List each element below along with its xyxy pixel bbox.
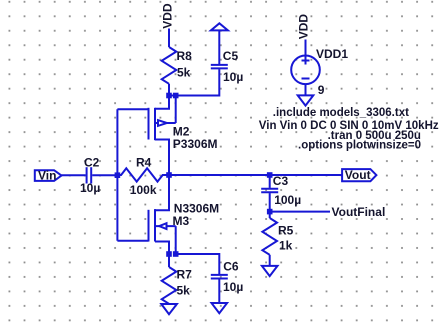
- svg-text:VDD1: VDD1: [316, 47, 348, 61]
- wire C6 to ground: [218, 279, 220, 303]
- wire junction to R7: [168, 254, 170, 267]
- svg-text:VoutFinal: VoutFinal: [332, 205, 386, 219]
- svg-text:R5: R5: [278, 223, 294, 237]
- resistor R4: [117, 168, 169, 181]
- wire bottom junction to C6: [176, 254, 220, 274]
- wire VDD to R8: [168, 29, 170, 48]
- ground below VDD1: [298, 95, 314, 105]
- node bottom junction A: [166, 251, 172, 257]
- svg-text:10µ: 10µ: [223, 70, 243, 84]
- wire C2 to gate node: [92, 174, 117, 176]
- svg-text:C3: C3: [273, 174, 289, 188]
- capacitor C5: [211, 30, 228, 68]
- PMOS M2 gate wire: [117, 108, 148, 110]
- resistor R5: [262, 218, 277, 255]
- svg-text:R8: R8: [177, 49, 193, 63]
- resistor R8: [162, 47, 177, 84]
- voltage source VDD1: [291, 56, 320, 85]
- spice directive .tran: [328, 130, 421, 142]
- svg-text:9: 9: [318, 83, 325, 97]
- wire top junction to C5 column: [169, 69, 219, 95]
- port flag Vout: [342, 169, 376, 181]
- spice directive Vin source: [259, 120, 439, 132]
- node bottom junction B: [173, 251, 179, 257]
- svg-text:10µ: 10µ: [223, 280, 243, 294]
- svg-text:Vout: Vout: [345, 168, 371, 182]
- wire source to ground: [305, 84, 307, 95]
- power flag (up triangle) at top of C5: [211, 23, 228, 30]
- node output junction: [166, 172, 172, 178]
- svg-text:100k: 100k: [130, 183, 157, 197]
- svg-text:10µ: 10µ: [80, 181, 100, 195]
- svg-text:M3: M3: [173, 214, 190, 228]
- svg-text:.include models_3306.txt: .include models_3306.txt: [273, 107, 409, 119]
- svg-text:.options plotwinsize=0: .options plotwinsize=0: [298, 139, 421, 151]
- NMOS M3 gate wire: [117, 240, 148, 242]
- NMOS M3: [149, 175, 176, 254]
- capacitor C2: [87, 167, 92, 183]
- wire C3 junction down: [269, 175, 271, 188]
- ground below R5: [262, 266, 278, 276]
- wire R8 to top junction: [168, 84, 170, 96]
- wire gate column vertical: [116, 109, 118, 241]
- svg-text:R4: R4: [136, 155, 152, 169]
- wire junction to R5: [269, 212, 271, 218]
- node VoutFinal junction: [267, 209, 273, 215]
- node top junction A: [166, 93, 172, 99]
- node top junction B: [173, 93, 179, 99]
- wire to VoutFinal label: [270, 211, 330, 213]
- svg-text:P3306M: P3306M: [173, 137, 218, 151]
- wire Vin to C2: [62, 174, 86, 176]
- svg-text:C2: C2: [84, 155, 100, 169]
- capacitor C6: [211, 275, 228, 279]
- power net label VDD (top): [160, 3, 174, 29]
- capacitor C3: [261, 189, 278, 192]
- node C3 junction: [267, 172, 273, 178]
- spice directive .include: [273, 107, 409, 119]
- power net label VDD (source): [297, 14, 311, 40]
- svg-text:5k: 5k: [177, 66, 191, 80]
- svg-text:C6: C6: [223, 259, 239, 273]
- wire R5 to ground: [269, 255, 271, 266]
- wire output to Vout: [169, 174, 342, 176]
- node gate junction: [115, 172, 121, 178]
- ground below C6: [212, 303, 228, 313]
- wire C3 to VoutFinal node: [269, 193, 271, 212]
- ground below R7: [161, 304, 177, 314]
- spice directive .options: [298, 139, 421, 151]
- svg-text:VDD: VDD: [297, 14, 311, 40]
- PMOS M2: [149, 96, 176, 176]
- wire VDD to source top: [305, 40, 307, 56]
- svg-text:1k: 1k: [279, 239, 293, 253]
- svg-text:C5: C5: [223, 49, 239, 63]
- svg-text:R7: R7: [177, 267, 193, 281]
- svg-text:5k: 5k: [177, 283, 191, 297]
- svg-text:100µ: 100µ: [274, 193, 301, 207]
- net label VoutFinal: [332, 205, 386, 219]
- resistor R7: [162, 267, 177, 304]
- svg-text:VDD: VDD: [160, 3, 174, 29]
- port flag Vin: [35, 170, 62, 181]
- svg-text:Vin: Vin: [38, 169, 56, 183]
